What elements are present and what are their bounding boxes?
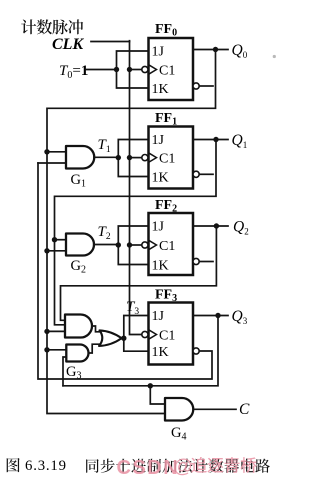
junction Q0 to G3 upper AND: [44, 329, 49, 334]
svg-text:C1: C1: [159, 152, 175, 167]
label: counting pulse (Chinese): [21, 19, 83, 34]
wire Q0 branch to G3 upper AND: [47, 330, 65, 332]
FF2 pin labels 1J C1 1K: [152, 220, 176, 274]
FF3 pin labels 1J C1 1K: [152, 309, 176, 360]
AND gate G3 upper: [65, 315, 92, 338]
svg-text:1K: 1K: [152, 82, 169, 97]
wire FF1 Q-bar stub: [199, 173, 213, 175]
label Q3: [232, 308, 248, 326]
FF3 clock inversion bubble: [142, 331, 148, 337]
label G3: [66, 364, 81, 382]
wire T0 input: [87, 69, 117, 71]
wire FF2 J-K bus: [118, 226, 148, 265]
junction Q0 to G1: [44, 149, 49, 154]
label Q1: [232, 132, 248, 150]
AND gate G1: [66, 146, 94, 169]
wire Q1 output: [193, 139, 228, 141]
junction CLK to FF0 clock: [127, 67, 132, 72]
wire Q3-bar feedback: [38, 163, 212, 379]
flip-flop FF1 label: [155, 111, 177, 128]
svg-text:CSDN: CSDN: [117, 457, 180, 479]
FF1 Q-bar bubble: [193, 171, 199, 177]
wire Q3 branch to G4: [150, 386, 165, 404]
FF1 pin labels 1J C1 1K: [152, 133, 176, 186]
label G4: [171, 425, 186, 443]
svg-text:6.3.19: 6.3.19: [25, 458, 67, 474]
node Q2 junction: [214, 223, 219, 228]
AND gate G4: [165, 398, 193, 421]
wire FF0 Q-bar stub: [199, 85, 213, 87]
node Q0 junction: [213, 47, 218, 52]
svg-text:C1: C1: [159, 239, 175, 254]
wire Q0 branch to G2: [47, 250, 66, 252]
svg-text:C1: C1: [159, 329, 175, 344]
flip-flop FF2 label: [155, 198, 177, 215]
wire Q2 output: [193, 225, 228, 227]
wire G4 output carry: [195, 408, 236, 410]
wire CLK to FF1 C1: [130, 157, 142, 159]
svg-text:C1: C1: [159, 64, 175, 79]
svg-text:@: @: [173, 456, 193, 478]
wire Q3-bar branch to G1: [38, 162, 66, 164]
junction CLK to FF1 clock: [127, 155, 132, 160]
wire G3 lower AND output jog: [89, 344, 100, 353]
wire Q3 feedback bus: [63, 316, 218, 386]
svg-text:1J: 1J: [152, 309, 165, 324]
OR gate G3 output stage: [99, 330, 124, 346]
FF0 dynamic clock triangle: [149, 65, 157, 75]
wire Q0 branch to G1: [47, 151, 66, 153]
label C carry output: [239, 401, 250, 418]
svg-text:1J: 1J: [152, 45, 165, 60]
node Q3 junction: [215, 313, 220, 318]
flip-flop FF0 label: [155, 22, 177, 39]
svg-text:C: C: [239, 401, 250, 418]
FF2 Q-bar bubble: [193, 258, 199, 264]
FF3 dynamic clock triangle: [149, 330, 157, 340]
label T0=1: [59, 63, 88, 81]
svg-text:1J: 1J: [152, 220, 165, 235]
label T3: [126, 299, 139, 317]
FF2 dynamic clock triangle: [149, 240, 157, 250]
watermark (pink): [117, 456, 257, 480]
label CLK: [52, 36, 84, 53]
AND gate G2: [66, 234, 94, 256]
FF1 clock inversion bubble: [142, 155, 148, 161]
wire Q3 branch to G3 lower AND: [63, 357, 66, 386]
flip-flop FF3 box: [149, 303, 194, 365]
AND gate G3 lower: [66, 345, 88, 362]
svg-text:1K: 1K: [152, 259, 169, 274]
FF3 Q-bar bubble: [193, 348, 199, 354]
wire Q2 feedback bus: [61, 226, 217, 320]
wire CLK vertical bus: [130, 41, 142, 335]
FF1 dynamic clock triangle: [149, 153, 157, 163]
svg-text:CLK: CLK: [52, 36, 84, 53]
flip-flop FF1 box: [149, 127, 194, 189]
label Q0: [232, 42, 248, 60]
flip-flop FF3 label: [155, 288, 177, 305]
svg-text:T0=1: T0=1: [59, 63, 88, 81]
FF0 clock inversion bubble: [142, 66, 148, 72]
FF2 clock inversion bubble: [142, 242, 148, 248]
label G1: [71, 172, 86, 190]
flip-flop FF0 box: [149, 38, 194, 100]
wire Q0 output: [193, 49, 228, 51]
svg-text:1J: 1J: [152, 133, 165, 148]
FF0 Q-bar bubble: [193, 83, 199, 89]
node Q1 junction: [213, 137, 218, 142]
flip-flop FF2 box: [149, 213, 194, 275]
junction Q0 to G2: [44, 248, 49, 253]
junction T0 to J-K bus: [114, 67, 119, 72]
wire CLK to FF0 C1: [130, 69, 142, 71]
wire G1 output T1: [94, 156, 118, 158]
wire FF2 Q-bar stub: [199, 261, 213, 263]
label Q2: [233, 219, 249, 237]
label G2: [71, 258, 86, 276]
label T2: [98, 224, 111, 242]
wire Q0 feedback bus: [47, 50, 216, 414]
junction Q0 to G3 lower AND: [44, 347, 49, 352]
scan noise speck: [273, 55, 276, 58]
junction Q1 to G2: [52, 237, 57, 242]
wire FF3 J-K bus: [124, 316, 149, 352]
wire Q0 branch to G3 lower AND: [47, 349, 66, 351]
label T1: [98, 137, 111, 155]
junction T2 to J-K bus: [116, 242, 121, 247]
caption: Fig 6.3.19 synchronous decimal add counter circuit: [7, 458, 270, 474]
wire Q3 output: [193, 315, 228, 317]
junction CLK to FF2 clock: [127, 242, 132, 247]
wire CLK horizontal: [91, 41, 130, 43]
node T3 junction at OR output: [121, 336, 126, 341]
wire Q1 branch to G2: [55, 239, 67, 241]
wire CLK to FF2 C1: [130, 244, 142, 246]
wire G2 output T2: [94, 244, 119, 246]
wire G3 upper AND output jog: [92, 326, 100, 332]
svg-text:1K: 1K: [152, 345, 169, 360]
FF0 pin labels 1J C1 1K: [152, 45, 176, 98]
wire FF1 J-K bus: [118, 140, 148, 177]
wire Q1 feedback bus: [55, 140, 217, 325]
junction T1 to J-K bus: [116, 155, 121, 160]
wire FF0 J-K bus: [117, 51, 149, 88]
junction Q3 to G4: [148, 383, 153, 388]
svg-text:1K: 1K: [152, 171, 169, 186]
